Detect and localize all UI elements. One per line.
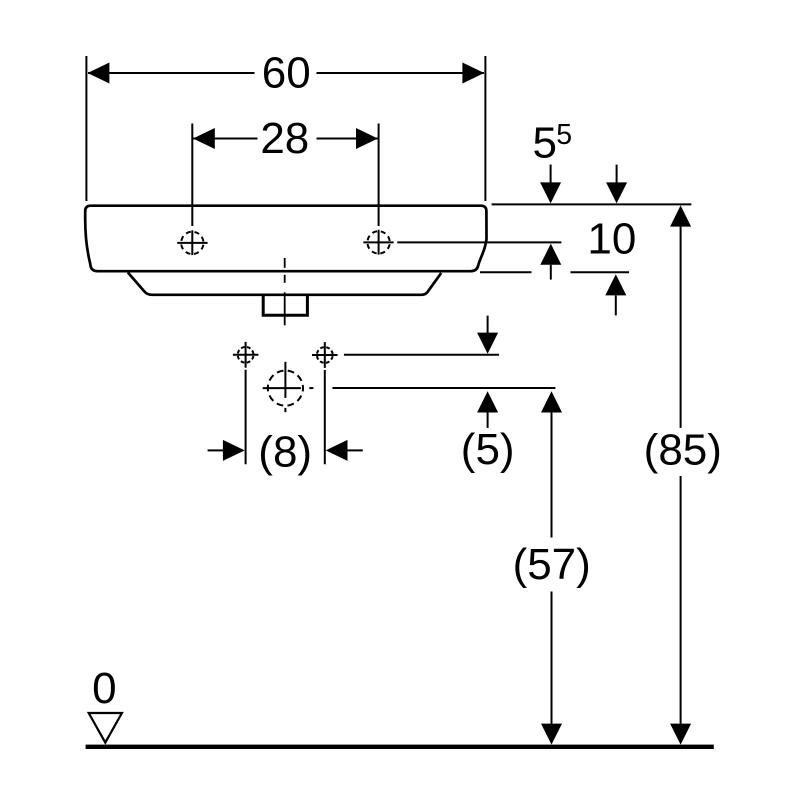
rim bottom reference line left segment [480, 271, 532, 273]
svg-text:(5): (5) [461, 425, 515, 474]
dim 5.5 up arrow [540, 244, 561, 265]
dim (85) line [670, 205, 691, 226]
dim (5) up arrow [477, 391, 498, 412]
ground line [86, 745, 714, 749]
svg-text:5: 5 [556, 119, 572, 151]
svg-text:(8): (8) [258, 427, 312, 476]
dim (8) extension left [245, 370, 247, 464]
svg-text:60: 60 [262, 49, 311, 98]
big drain hole [263, 362, 314, 412]
dim 28 extension line left [191, 124, 193, 227]
small hole right [312, 342, 338, 368]
datum triangle [89, 713, 122, 743]
washbasin outline [85, 206, 486, 272]
svg-text:5: 5 [533, 118, 557, 167]
svg-text:28: 28 [260, 114, 309, 163]
washbasin bowl [128, 272, 441, 294]
dim 60 extension line right [484, 56, 486, 201]
dim (5) down arrow [487, 316, 489, 333]
svg-text:10: 10 [587, 214, 636, 263]
dim (8) extension right [324, 370, 326, 464]
svg-text:(85): (85) [644, 426, 722, 475]
drain rectangle [263, 296, 307, 316]
dim 28 extension line right [378, 124, 380, 227]
dim 5.5 down arrow [550, 165, 552, 184]
dim 60 arrowhead left [88, 63, 110, 84]
dim 60 arrowhead right [462, 63, 484, 84]
dim 60 extension line left [85, 56, 87, 201]
dim (57) line [541, 391, 562, 412]
dim 10 down arrow [616, 165, 618, 184]
dim (8) right arrow [326, 440, 348, 461]
dim 28 line [192, 138, 378, 140]
tap hole right [363, 230, 393, 255]
dim 10 up arrow [605, 274, 626, 295]
tap hole left [177, 230, 207, 255]
small hole left [233, 342, 259, 368]
dim 28 arrowhead left [193, 128, 215, 149]
small holes reference line [344, 354, 499, 356]
dim 28 arrowhead right [356, 128, 378, 149]
dim 28 text mask [258, 118, 317, 159]
leader line from right tap hole [397, 241, 561, 243]
rim top reference line [492, 203, 692, 205]
rim bottom reference line right segment [571, 271, 630, 273]
svg-text:(57): (57) [513, 540, 591, 589]
center axis dash-dot [284, 258, 286, 268]
dim (8) left arrow [208, 449, 224, 451]
big hole reference line [332, 387, 555, 389]
dim 60 line [88, 72, 484, 74]
svg-text:0: 0 [92, 664, 116, 713]
dim 60 text mask [255, 52, 317, 93]
